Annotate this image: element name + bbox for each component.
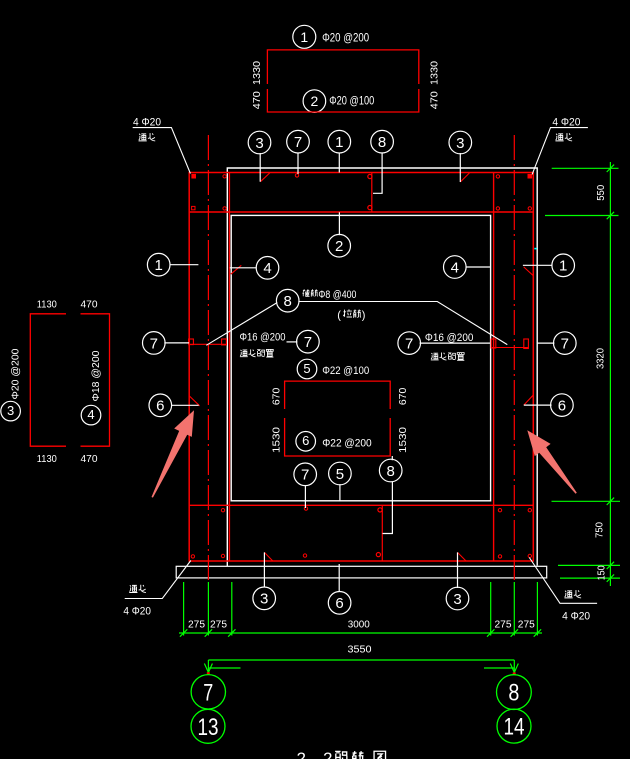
svg-text:1530: 1530 xyxy=(398,426,409,453)
balloon 2 top-detail xyxy=(303,90,326,113)
leader balloon1 left xyxy=(170,264,199,266)
leader balloon3 bottom-right xyxy=(457,552,459,588)
balloon 4 left-detail xyxy=(81,405,101,425)
hook tick label6 right xyxy=(524,395,534,405)
text gujin label8 xyxy=(302,289,309,296)
svg-text:1: 1 xyxy=(335,134,343,151)
balloon 6 center-detail xyxy=(296,432,316,452)
balloon 1 left xyxy=(147,253,170,276)
leader label8 tie underline and diagonals xyxy=(206,302,507,346)
balloon 4 left xyxy=(256,257,279,280)
left detail dim texts xyxy=(37,300,98,465)
svg-text:4: 4 xyxy=(451,259,459,276)
left detail rect xyxy=(30,314,109,446)
svg-text:(: ( xyxy=(337,310,341,322)
axis circle 8 xyxy=(497,675,532,710)
dim slashes row1 xyxy=(180,629,541,636)
rebar cage outer rect xyxy=(189,173,533,562)
svg-text:1330: 1330 xyxy=(430,61,441,85)
dropper left xyxy=(207,660,209,674)
balloon 6 left xyxy=(149,394,172,417)
svg-text:7: 7 xyxy=(203,679,213,706)
svg-text:8: 8 xyxy=(378,134,386,151)
dim tick y215 xyxy=(545,215,619,217)
axis centerline left column xyxy=(207,135,209,583)
balloon 5 center-detail xyxy=(297,359,317,379)
arrowhead left xyxy=(204,664,212,673)
tick label4 left xyxy=(231,265,242,274)
balloon 3 bottom-left xyxy=(253,587,276,610)
red dots at axis circle tops xyxy=(207,672,210,674)
svg-text:6: 6 xyxy=(302,433,309,448)
hook tick label6 left xyxy=(189,396,199,406)
svg-text:1: 1 xyxy=(559,258,567,275)
dim texts vertical right xyxy=(595,184,608,580)
dropper right xyxy=(513,660,515,674)
dim line row1 xyxy=(179,632,542,634)
axis centerline right column xyxy=(513,135,515,583)
balloon 6 right xyxy=(551,394,574,417)
balloon 1 right xyxy=(552,254,575,277)
rebar top beam bottom bar xyxy=(189,211,533,213)
svg-text:3: 3 xyxy=(260,591,268,608)
svg-text:1530: 1530 xyxy=(272,426,283,453)
svg-text:Φ20 @200: Φ20 @200 xyxy=(11,348,22,399)
ext line x537 xyxy=(536,582,538,636)
svg-text:Φ18 @200: Φ18 @200 xyxy=(91,350,102,401)
svg-text:2: 2 xyxy=(335,238,343,255)
leader 4phi20 bottom-right xyxy=(529,558,597,604)
leader balloon4 right xyxy=(466,266,492,268)
balloon 7 bottom-beam xyxy=(294,463,317,486)
balloon 3 bottom-right xyxy=(446,587,469,610)
arrowhead right xyxy=(510,664,518,673)
svg-text:6: 6 xyxy=(156,398,164,415)
corner bar dots top beam xyxy=(192,174,532,210)
svg-text:1130: 1130 xyxy=(37,300,57,311)
svg-text:): ) xyxy=(362,310,366,322)
axis circle 13 xyxy=(191,709,225,743)
text tongchang-peizhi left xyxy=(240,350,248,357)
text tongchang bottom-right xyxy=(564,591,572,598)
leader balloon7 far-left xyxy=(164,342,189,344)
balloon 7 top xyxy=(287,130,310,153)
axis circle 7 xyxy=(191,675,225,709)
leader 4phi20 bottom-left xyxy=(125,561,191,599)
top detail rect xyxy=(267,50,418,112)
leader balloon8 bottom-beam xyxy=(383,456,393,534)
svg-text:3: 3 xyxy=(453,591,461,608)
balloon 7 far-right xyxy=(554,332,577,355)
leader 4phi20 top-right xyxy=(532,128,588,175)
leader balloon1 right xyxy=(523,264,552,266)
top detail dim texts xyxy=(252,61,441,453)
balloon 7 mid-right xyxy=(398,332,421,355)
leader balloon2 xyxy=(338,212,340,235)
svg-text:1: 1 xyxy=(155,257,163,274)
svg-text:7: 7 xyxy=(304,334,312,351)
svg-text:4: 4 xyxy=(87,407,94,422)
svg-text:1130: 1130 xyxy=(37,454,57,465)
cross tie right column xyxy=(491,339,528,349)
balloon 2 xyxy=(328,234,351,257)
dim tick y578 xyxy=(560,577,620,579)
svg-text:1330: 1330 xyxy=(252,61,263,85)
balloon 7 far-left xyxy=(143,332,166,355)
balloon 3 left-detail xyxy=(1,401,21,421)
text tongchang-peizhi right xyxy=(431,353,439,360)
ext line x183 xyxy=(183,582,185,636)
svg-text:4 Φ20: 4 Φ20 xyxy=(123,605,150,617)
axis circle 14 xyxy=(497,709,531,743)
dim tick y168 xyxy=(552,167,619,169)
axis circle digits 7 13 8 14 xyxy=(198,679,525,741)
title 2-2 peijintu (clipped) xyxy=(297,750,386,759)
ext line x514 xyxy=(513,582,515,636)
svg-text:5: 5 xyxy=(303,361,310,376)
svg-text:470: 470 xyxy=(81,454,98,465)
svg-text:7: 7 xyxy=(561,336,569,353)
dim tick y565 xyxy=(558,564,620,566)
svg-text:750: 750 xyxy=(595,522,606,538)
leader balloon6 right xyxy=(524,404,552,406)
svg-text:3: 3 xyxy=(456,135,464,152)
balloon 6 bottom xyxy=(328,592,351,615)
svg-text:6: 6 xyxy=(558,398,566,415)
svg-text:275: 275 xyxy=(495,620,512,631)
balloon 4 right xyxy=(444,256,467,279)
svg-text:7: 7 xyxy=(150,335,158,352)
svg-text:275: 275 xyxy=(518,620,535,631)
svg-text:8: 8 xyxy=(284,293,292,310)
svg-text:275: 275 xyxy=(210,620,227,631)
leader 4phi20 top-left xyxy=(133,128,191,174)
arrow bars row2 xyxy=(208,667,514,669)
svg-text:7: 7 xyxy=(301,467,309,484)
pink arrow left xyxy=(152,410,195,497)
leader balloon7 top xyxy=(297,153,299,174)
leader balloon3 top-left xyxy=(259,153,261,182)
svg-text:Φ16 @200: Φ16 @200 xyxy=(240,332,286,344)
svg-text:470: 470 xyxy=(252,91,263,109)
svg-text:4 Φ20: 4 Φ20 xyxy=(562,611,590,623)
bottom dim texts xyxy=(188,620,535,656)
rebar spec texts xyxy=(123,30,590,622)
svg-text:4 Φ20: 4 Φ20 xyxy=(552,116,580,128)
top beam stirrup xyxy=(368,173,372,213)
balloon 1 top-detail xyxy=(293,25,316,48)
balloon 3 top-left xyxy=(248,131,271,154)
svg-text:Φ16 @200: Φ16 @200 xyxy=(425,332,474,344)
ext line x490 xyxy=(490,582,492,636)
svg-text:7: 7 xyxy=(294,134,302,151)
dim line row2 3550 xyxy=(208,659,514,661)
cross tie left column xyxy=(189,339,227,345)
svg-text:3: 3 xyxy=(7,403,14,418)
tick label3 top-left xyxy=(260,173,269,182)
concrete outline white pi-frame xyxy=(227,168,537,566)
svg-text:470: 470 xyxy=(81,300,98,311)
balloon 8 top xyxy=(371,130,394,153)
rebar left column inner bar xyxy=(228,173,230,562)
leader balloon6 left xyxy=(172,404,199,406)
cjk 4phi20 labels xyxy=(129,133,581,598)
leader balloon1 top xyxy=(338,153,340,173)
balloons: white circles with numbers xyxy=(1,25,576,614)
svg-text:2—2: 2—2 xyxy=(297,750,333,759)
svg-text:7: 7 xyxy=(405,336,413,353)
balloon number digits xyxy=(7,29,569,612)
svg-text:3: 3 xyxy=(255,135,263,152)
balloon 5 bottom-beam xyxy=(329,462,352,485)
tick label3 bottom-left xyxy=(264,552,272,561)
svg-text:550: 550 xyxy=(596,184,607,200)
balloon 7 mid-left xyxy=(297,330,320,353)
concrete inner opening xyxy=(231,215,490,500)
svg-text:470: 470 xyxy=(430,91,441,109)
svg-text:5: 5 xyxy=(336,466,344,483)
svg-text:Φ22 @200: Φ22 @200 xyxy=(322,437,372,449)
svg-text:4: 4 xyxy=(263,260,271,277)
leader balloon7 bottom-beam xyxy=(304,485,306,508)
leader balloon7 far-right xyxy=(537,342,554,344)
svg-text:Φ20 @100: Φ20 @100 xyxy=(329,94,374,108)
leader balloon3 top-right xyxy=(459,153,461,182)
svg-text:1: 1 xyxy=(300,29,308,45)
pink arrow right xyxy=(527,430,577,493)
corner bar dots bottom beam xyxy=(191,507,531,558)
foundation base slab xyxy=(176,566,547,578)
leader balloon7 mid-left stub xyxy=(287,341,298,343)
text tongchang top-left xyxy=(139,134,147,141)
svg-text:13: 13 xyxy=(198,714,219,741)
leader balloon6 bottom xyxy=(338,564,340,592)
text tongchang top-right xyxy=(555,134,563,141)
svg-text:150: 150 xyxy=(597,565,608,580)
text tongchang bottom-left xyxy=(129,585,137,592)
center detail rect xyxy=(285,381,391,456)
svg-text:2: 2 xyxy=(311,93,319,109)
svg-text:Φ20 @200: Φ20 @200 xyxy=(322,30,369,44)
bottom beam stirrup xyxy=(376,505,382,561)
svg-text:3000: 3000 xyxy=(348,620,370,631)
svg-text:4 Φ20: 4 Φ20 xyxy=(133,116,161,128)
tick label1 right xyxy=(524,267,534,276)
leader balloon7 mid-right xyxy=(420,342,491,344)
ext line x208 xyxy=(207,582,209,636)
balloon 3 top-right xyxy=(449,131,472,154)
svg-text:3550: 3550 xyxy=(348,645,372,656)
svg-text:275: 275 xyxy=(188,620,205,631)
rebar right column inner bar xyxy=(493,173,495,562)
svg-text:Φ22 @100: Φ22 @100 xyxy=(322,365,369,377)
dim slashes right xyxy=(607,165,614,582)
green dimension system bottom xyxy=(179,582,542,674)
leader balloon5 bottom-beam xyxy=(339,484,341,501)
leader balloon3 bottom-left xyxy=(263,552,265,587)
svg-text:670: 670 xyxy=(398,387,409,405)
leader balloon8 top xyxy=(373,152,382,193)
svg-text:Φ8 @400: Φ8 @400 xyxy=(318,289,356,301)
svg-text:6: 6 xyxy=(335,595,343,612)
tick label3 top-right xyxy=(460,173,469,182)
cyan mark right column xyxy=(534,248,537,250)
svg-text:8: 8 xyxy=(508,680,519,707)
dim tick y501 xyxy=(552,500,621,502)
svg-text:14: 14 xyxy=(504,714,525,741)
ext line x231 xyxy=(231,582,233,636)
tick label3 bottom-right xyxy=(458,552,467,561)
leader balloon4 left xyxy=(230,267,257,269)
svg-text:8: 8 xyxy=(387,463,395,480)
rebar bottom beam top bar xyxy=(189,504,533,506)
svg-text:3320: 3320 xyxy=(596,348,607,369)
svg-text:670: 670 xyxy=(272,387,283,405)
dim vline right xyxy=(609,162,611,586)
green dimension system right side xyxy=(545,162,620,586)
balloon 1 top xyxy=(328,130,351,153)
balloon 8 tie-label xyxy=(276,289,299,312)
balloon 8 bottom-beam xyxy=(379,459,402,482)
